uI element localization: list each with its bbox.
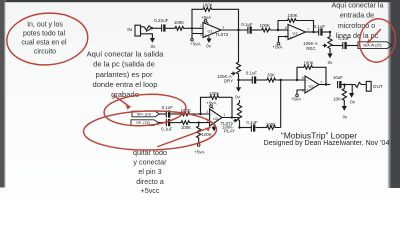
wire SP- to C9	[159, 122, 167, 124]
svg-text:6: 6	[285, 26, 287, 30]
power +5vA U2 pin5	[291, 94, 301, 101]
svg-text:0.1uF: 0.1uF	[161, 127, 173, 132]
node U2 feedback tap	[296, 79, 298, 81]
node bias resistor tap	[198, 121, 200, 123]
svg-text:“MobiusTrip” Looper: “MobiusTrip” Looper	[281, 130, 357, 140]
resistor R7 10K	[333, 85, 346, 106]
capacitor C1 0.22uF	[154, 18, 169, 31]
resistor R8 100K	[266, 122, 281, 129]
wire jack to C1	[152, 27, 162, 29]
wire U1a output down to DRY pot	[238, 30, 240, 62]
power +9vA U1a pin8	[201, 15, 211, 24]
capacitor C5 0.1uF	[246, 70, 266, 83]
power +5vA U1b pin5	[272, 42, 282, 49]
svg-text:0v: 0v	[235, 95, 240, 100]
svg-text:In, out y los: In, out y los	[27, 21, 63, 28]
svg-text:directo a: directo a	[136, 177, 164, 186]
op-amp U1a TL072	[200, 23, 229, 38]
resistor R12 feedback 100K	[201, 91, 233, 118]
node mix junction	[280, 79, 282, 81]
ground U1a pin4	[206, 36, 211, 48]
svg-text:SP- (15): SP- (15)	[136, 121, 149, 125]
ground 10K	[342, 106, 348, 120]
node U3 output feedback junction	[231, 116, 233, 118]
input jack J1 IN	[127, 25, 152, 36]
svg-text:Designed by Dean Hazelwanter,: Designed by Dean Hazelwanter, Nov ’04	[264, 140, 390, 147]
svg-text:+5vA: +5vA	[291, 96, 301, 101]
svg-text:0v: 0v	[206, 43, 211, 48]
svg-text:0v: 0v	[151, 44, 156, 49]
node U2 output junction	[325, 83, 327, 85]
svg-text:100K: 100K	[174, 20, 184, 25]
svg-text:TL072: TL072	[215, 32, 228, 37]
svg-text:SP+ (14): SP+ (14)	[137, 113, 151, 117]
svg-text:−: −	[211, 112, 213, 116]
wire R3 to U1b pin6	[278, 29, 288, 31]
svg-text:100K: 100K	[287, 13, 297, 18]
svg-text:Aquí conectar la: Aquí conectar la	[332, 1, 384, 10]
net tag SP+ (14)	[132, 111, 160, 117]
svg-text:33K: 33K	[267, 73, 275, 78]
svg-text:+: +	[290, 35, 292, 39]
wire jack OUT sleeve to ground	[351, 85, 353, 94]
potentiometer VR1 100K-A REC	[303, 32, 332, 54]
ground jack IN	[150, 38, 156, 49]
node PLAY wiper	[238, 126, 240, 128]
wire 33K to U2 pin6	[281, 79, 305, 81]
resistor R10 100K	[180, 121, 210, 130]
power +5vA U1a pin3	[190, 39, 200, 47]
svg-text:7: 7	[320, 80, 322, 84]
svg-text:REC: REC	[306, 46, 315, 51]
svg-text:U3: U3	[213, 117, 218, 121]
svg-text:donde entra el loop: donde entra el loop	[92, 80, 157, 89]
resistor R4 feedback 100K	[278, 13, 314, 32]
ground U3 pin4	[211, 124, 216, 131]
svg-text:6: 6	[302, 76, 304, 80]
svg-text:1: 1	[223, 26, 225, 30]
capacitor C8 0.1uF	[162, 105, 180, 117]
svg-text:−: −	[290, 29, 292, 33]
power +5vA bias	[194, 144, 204, 155]
wire U2 output	[319, 84, 330, 86]
annotation arrow inside big ellipse	[158, 128, 210, 147]
resistor R2 feedback 100K	[192, 2, 239, 30]
svg-text:MIA IN (20): MIA IN (20)	[363, 44, 381, 48]
svg-text:−: −	[205, 27, 207, 31]
svg-text:y conectar: y conectar	[133, 158, 167, 167]
title MobiusTrip Looper	[264, 130, 390, 147]
svg-text:+5vA: +5vA	[272, 44, 282, 49]
capacitor C9 0.1uF	[161, 119, 179, 132]
op-amp U1b TL072	[285, 25, 309, 40]
wire U2 pin5 bias	[297, 90, 305, 94]
op-amp U3 TL072	[206, 109, 233, 126]
power +9vA U3 pin8	[206, 100, 216, 109]
svg-text:10K: 10K	[333, 97, 341, 102]
svg-text:7: 7	[307, 28, 309, 32]
wire U1a output	[221, 29, 248, 31]
svg-text:potes todo tal: potes todo tal	[23, 30, 65, 37]
svg-text:0.1uF: 0.1uF	[314, 24, 326, 29]
wire jack sleeve to ground	[141, 34, 153, 38]
wire U1b output	[306, 31, 319, 33]
wire PLAY to C7	[240, 127, 252, 129]
note text top-right	[332, 1, 384, 40]
svg-text:100K: 100K	[202, 132, 212, 137]
annotation ellipse SP+ tag	[103, 92, 187, 129]
ground jack OUT	[349, 93, 356, 105]
svg-text:0v: 0v	[350, 100, 355, 105]
svg-text:PLAY: PLAY	[224, 129, 235, 134]
capacitor C7 0.1uF	[246, 120, 266, 131]
svg-text:+5vA: +5vA	[190, 42, 200, 47]
resistor R11 100K bias	[197, 123, 212, 144]
svg-text:10uF: 10uF	[333, 75, 343, 80]
wire SP+ to C8	[160, 113, 167, 115]
wire PLAY pot top	[239, 100, 241, 103]
wire U3 output	[222, 117, 240, 119]
resistor R1 100K	[169, 20, 203, 30]
capacitor C3 0.1uF	[314, 24, 330, 35]
resistor R9 100K	[180, 108, 210, 116]
resistor R3 100K	[259, 23, 278, 32]
svg-text:5: 5	[302, 89, 304, 93]
node output divider	[343, 84, 345, 86]
svg-text:+5vA: +5vA	[194, 150, 204, 155]
capacitor C4 0.1uF	[338, 36, 358, 49]
svg-text:−: −	[306, 79, 308, 83]
node U1b feedback tap	[277, 29, 279, 31]
ground DRY pot	[235, 80, 241, 100]
svg-text:1: 1	[223, 113, 225, 117]
svg-text:+5vcc: +5vcc	[141, 186, 160, 193]
svg-text:DRY: DRY	[224, 79, 233, 84]
wire REC wiper to C4	[332, 45, 343, 47]
svg-text:el pin 3: el pin 3	[138, 167, 161, 176]
op-amp U2 TL072	[302, 76, 323, 93]
svg-text:circuito: circuito	[34, 48, 56, 55]
potentiometer VR3 100K-A PLAY	[222, 103, 242, 134]
jack switch contact	[146, 28, 152, 32]
ground REC pot	[327, 54, 333, 65]
output jack J2 OUT	[352, 81, 383, 91]
capacitor C6 10uF	[333, 75, 352, 88]
potentiometer VR2 100K-A DRY	[217, 62, 240, 84]
node jack tip	[151, 27, 153, 29]
wire DRY to C5	[239, 79, 253, 81]
svg-text:0.22uF: 0.22uF	[154, 18, 168, 23]
resistor R6 feedback 100K	[297, 61, 326, 85]
capacitor C2 0.1uF	[241, 22, 259, 34]
node DRY wiper	[237, 79, 239, 81]
svg-text:+: +	[306, 88, 308, 92]
svg-text:U1: U1	[208, 29, 213, 33]
net tag SP- (15)	[131, 120, 159, 126]
note text bottom-left	[133, 148, 167, 195]
annotation arrow grabado to SP+	[114, 96, 130, 110]
wire R8 riser to mix node	[280, 80, 282, 128]
svg-text:2: 2	[206, 110, 208, 114]
note text top-left	[21, 21, 67, 55]
svg-text:0.1uF: 0.1uF	[246, 120, 258, 125]
svg-text:100K: 100K	[181, 125, 191, 130]
svg-text:de la pc (salida de: de la pc (salida de	[93, 60, 155, 69]
svg-text:parlantes) es por: parlantes) es por	[96, 70, 153, 79]
svg-text:+: +	[205, 33, 207, 37]
svg-text:IN: IN	[127, 27, 132, 33]
node U1a output	[237, 29, 239, 31]
svg-text:2: 2	[200, 24, 202, 28]
svg-text:0.1uF: 0.1uF	[162, 105, 174, 110]
svg-text:0.1uF: 0.1uF	[241, 22, 253, 27]
net tag MIA IN (20)	[358, 42, 392, 49]
svg-text:100K: 100K	[260, 23, 270, 28]
svg-text:cual esta en el: cual esta en el	[21, 39, 67, 46]
svg-text:U2: U2	[309, 84, 314, 88]
svg-text:Aquí conectar la salida: Aquí conectar la salida	[87, 49, 165, 58]
note text left-middle	[87, 49, 165, 99]
node REC pot top	[329, 31, 331, 33]
wire U1b pin5 bias	[279, 37, 289, 43]
svg-text:0v: 0v	[328, 60, 333, 65]
svg-text:OUT: OUT	[373, 84, 383, 89]
svg-text:entrada de: entrada de	[340, 11, 374, 20]
svg-text:0v: 0v	[343, 115, 348, 120]
annotation ellipse top-left	[5, 10, 89, 67]
annotation arrow to MIA IN tag	[367, 30, 381, 44]
annotation ellipse MIA IN	[356, 16, 399, 65]
node feedback tap	[191, 27, 193, 29]
node U1b output junction	[312, 31, 314, 33]
svg-text:U1: U1	[293, 31, 298, 35]
annotation ellipse SP tags big	[83, 110, 217, 151]
node U3 feedback tap	[199, 113, 201, 115]
wire U1a pin3 bias	[192, 28, 203, 38]
resistor R5 33K	[266, 73, 281, 82]
svg-text:0.1uF: 0.1uF	[246, 70, 258, 75]
